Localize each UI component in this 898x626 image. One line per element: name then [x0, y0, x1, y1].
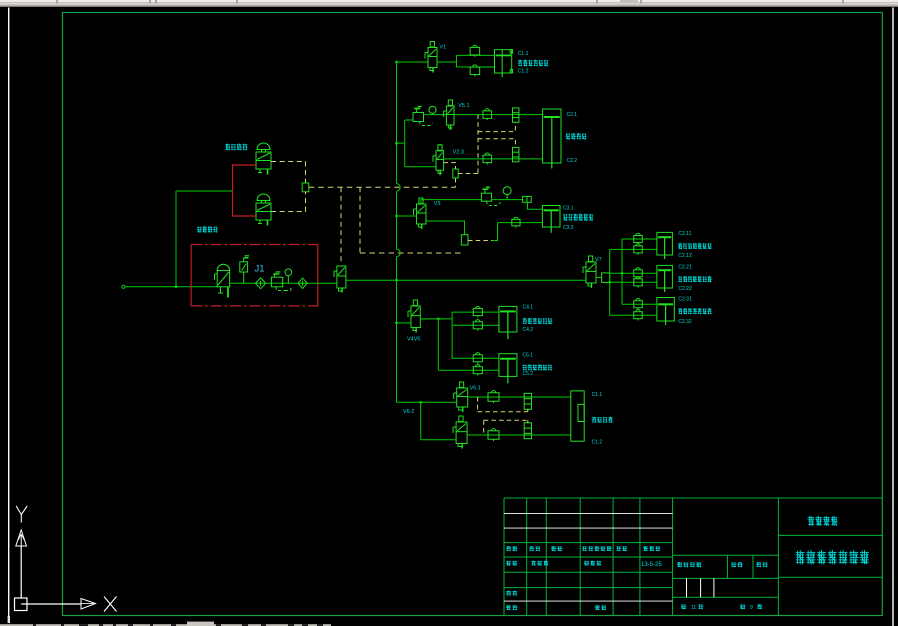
wire: junction block down to cylinder top [528, 202, 543, 209]
svg-text:V5.1: V5.1 [458, 103, 469, 109]
svg-text:C2.21: C2.21 [678, 264, 692, 270]
flow control (g6 lower) [524, 423, 531, 439]
wire: pilot line from upper button to shuttle valve [271, 162, 306, 184]
svg-text:C4.1: C4.1 [523, 305, 534, 311]
title block small texts [506, 546, 511, 548]
svg-text:13-5-25: 13-5-25 [641, 562, 662, 568]
label: emergency stop switch (jiting kaiguan) [197, 226, 201, 228]
svg-text:C1.2: C1.2 [518, 68, 529, 74]
pilot: group6 crossover [477, 397, 479, 412]
manifold block (right group) [602, 273, 610, 283]
svg-text:C3.1: C3.1 [563, 206, 574, 212]
throttle g4 line3 [473, 355, 482, 362]
cylinder: transmission cylinder 1 [657, 232, 673, 255]
throttle (g6 lower) [488, 431, 499, 440]
throttle (g6 upper) [488, 393, 499, 402]
gauge (group3) [503, 187, 511, 195]
title block grid [504, 497, 883, 499]
label: bearing positioning cylinder [518, 60, 522, 62]
valve V6.2 [456, 422, 467, 444]
label: start switch (qidong kaiguan) [225, 144, 230, 146]
lubricator with gauge [271, 277, 282, 287]
cylinder: mould clamp cylinder B [499, 354, 517, 377]
svg-text:V1: V1 [440, 45, 447, 51]
svg-text:11: 11 [691, 605, 696, 611]
wire: vertical distribution bus with crossover hops [396, 62, 398, 184]
wire: pilot drop to master valve V1 [340, 187, 342, 263]
wire: lower pilot bus (y=253) [360, 252, 465, 254]
svg-text:V6.2: V6.2 [403, 409, 414, 415]
junction block (group3) [523, 196, 532, 202]
filter (diamond 1) [255, 278, 265, 289]
svg-text:C2.22: C2.22 [678, 286, 692, 292]
wire: group3 lower line to cylinder [498, 222, 543, 224]
UCS icon (X/Y axes) [16, 506, 21, 515]
wire: bus bottom branch to group6 [397, 401, 457, 403]
svg-text:C1.1: C1.1 [592, 392, 603, 398]
svg-text:C3.2: C3.2 [563, 225, 574, 231]
wire: regulator to junction block [492, 199, 523, 201]
cylinder: top-tight cylinder (vertical) [543, 109, 561, 163]
wire: group1 valve output split [437, 61, 457, 63]
regulator (group3) [481, 193, 491, 201]
wire: line through air prep unit [230, 282, 337, 284]
valve V5.1 [446, 106, 454, 125]
svg-text:C5.2: C5.2 [523, 371, 534, 377]
relief valve J1 [240, 262, 248, 272]
gauge (group2) [429, 106, 436, 113]
wire: manifold lower net [610, 281, 657, 283]
wire: pilot line from lower button to shuttle valve [271, 192, 306, 212]
left screen edge white line [8, 8, 10, 624]
wire: manifold upper net [610, 272, 657, 274]
throttle (group3 lower) [512, 219, 520, 225]
wire: valve V3 right port to shuttle [426, 221, 465, 235]
cylinder: feeding cylinder (large) [571, 391, 584, 441]
valve V3 [417, 204, 427, 224]
wire: branch up to start-switch circuit [175, 191, 177, 287]
throttle cyl3 upper [634, 301, 643, 308]
wire: branch to valve V1 group1 [397, 61, 429, 63]
wire: group2 lower line [444, 158, 543, 160]
throttle (group2 lower) [483, 155, 492, 163]
svg-text:C2.2: C2.2 [567, 158, 578, 164]
svg-text:V3: V3 [434, 201, 441, 207]
regulator drain (group3) [486, 201, 501, 205]
valve V6.1 [457, 388, 468, 407]
wire: group4 output and risers [420, 318, 452, 320]
wire: pilot bus (horizontal, y=187) [309, 186, 456, 188]
svg-text:C2.12: C2.12 [678, 253, 692, 259]
window toolbar strip (top) [0, 0, 898, 2]
cylinder: mould clamp cylinder A [499, 306, 517, 332]
valve: start push-button valve (upper) [257, 143, 270, 150]
shuttle valve on pilot bus [302, 183, 309, 192]
svg-text:V7: V7 [595, 257, 602, 263]
throttle (group2 upper) [483, 111, 492, 119]
node: air supply inlet terminal [122, 285, 125, 288]
throttle cyl2 upper [634, 270, 643, 277]
svg-text:J1: J1 [255, 264, 265, 275]
flow control (group2 lower) [513, 147, 519, 161]
right screen edge white line [892, 8, 894, 626]
wire: group2 upper line [454, 114, 543, 116]
valve V1: master shutoff (pilot operated) [337, 266, 346, 288]
valve V4V5 [411, 306, 420, 328]
label: cooling positioning cylinder [563, 214, 567, 216]
throttle g4 line2 [473, 322, 482, 329]
throttle cyl2 lower [634, 279, 643, 286]
wire: red link between start buttons [233, 165, 257, 216]
label: school name (Taihu college) [808, 517, 814, 519]
valve: emergency stop valve [217, 264, 229, 270]
svg-text:V2.3: V2.3 [453, 150, 464, 156]
cylinder: cooling positioning cylinder [542, 206, 560, 228]
wire: pilot drop x=360 to lower pilot bus [359, 187, 361, 253]
wire: group6 upper line [468, 396, 571, 398]
regulator drain dashes [419, 122, 433, 126]
wire: valve V3 top branch to regulator [421, 200, 481, 204]
bottom command-line strip [0, 624, 331, 626]
pilot: shuttle to green riser [468, 240, 492, 242]
regulator (group2) [413, 113, 424, 122]
svg-text:C2.32: C2.32 [678, 319, 692, 325]
valve V2.3 [436, 151, 444, 170]
cylinder: bearing positioning cylinder [495, 50, 512, 73]
wire: main line valve V1 to distribution bus [346, 279, 586, 281]
label: drawing title - system pneumatic schematic [796, 552, 805, 554]
svg-text:C1.1: C1.1 [518, 51, 529, 57]
wire: branch to valve V4V5 [397, 322, 412, 324]
valve V7 [586, 262, 596, 283]
throttle g4 line1 [473, 309, 482, 316]
wire: branch to group3 valve V3 [397, 215, 417, 217]
throttle g4 line4 [473, 367, 482, 374]
valve: start push-button valve (lower) [257, 194, 270, 200]
svg-text:C2.11: C2.11 [678, 231, 691, 237]
wire: valve V7 to manifold [596, 277, 602, 279]
shuttle valve (group3) [461, 235, 468, 245]
wire: group6 lower line [467, 434, 571, 436]
svg-text:C5.1: C5.1 [523, 353, 534, 359]
valve V1 (group1 solenoid valve) [428, 48, 437, 68]
svg-text:9: 9 [750, 605, 753, 611]
throttle cyl1 lower [634, 246, 643, 253]
svg-text:C4.2: C4.2 [523, 327, 534, 333]
label: top-tight cylinder [566, 133, 570, 135]
pilot: group2 crossover dashes [477, 115, 479, 174]
wire: feed to valve V2.3 [405, 166, 436, 168]
wire: regulator to valve V5.1 [424, 114, 447, 116]
red enclosure: air preparation unit [191, 244, 318, 246]
cylinder: transmission cylinder 3 [657, 298, 674, 322]
flow control (g6 upper) [524, 393, 531, 409]
throttle check valve (group1 lower) [470, 67, 480, 75]
svg-text:C1.2: C1.2 [592, 440, 603, 446]
svg-text:V4V5: V4V5 [407, 337, 420, 343]
flow control (group2 upper) [513, 108, 519, 122]
throttle cyl1 upper [634, 236, 643, 243]
label: feeding cylinder [592, 417, 597, 419]
cylinder: transmission cylinder 2 [657, 265, 673, 288]
svg-text:V6.1: V6.1 [470, 386, 481, 392]
svg-text:C2.31: C2.31 [678, 296, 692, 302]
throttle check valve (group1 upper) [470, 47, 480, 55]
throttle cyl3 lower [634, 312, 643, 319]
pilot component below V2.3 [453, 169, 458, 178]
filter (diamond 2) [298, 278, 307, 288]
wire: main supply line into air-prep unit [125, 286, 218, 288]
svg-text:C2.1: C2.1 [567, 112, 578, 118]
wire: branch to group2 [397, 142, 405, 144]
